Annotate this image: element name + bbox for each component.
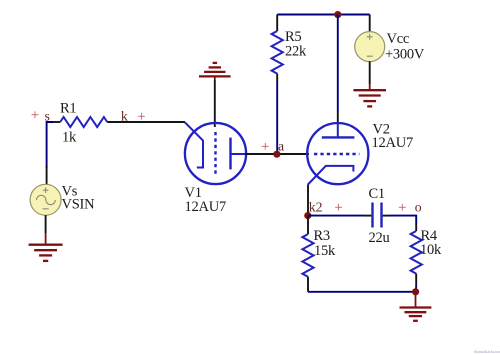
svg-text:o: o <box>415 200 422 215</box>
svg-text:dianzikaifa.com: dianzikaifa.com <box>474 349 500 354</box>
svg-text:12AU7: 12AU7 <box>185 199 226 215</box>
junction k2 <box>304 212 311 219</box>
svg-text:k: k <box>121 108 128 123</box>
pin Vs bottom <box>45 215 47 233</box>
triode V2 12AU7 <box>307 123 368 184</box>
svg-text:R1: R1 <box>60 101 76 117</box>
value 1k <box>62 130 77 146</box>
resistor R5 <box>272 15 283 82</box>
resistor R4 <box>411 223 422 292</box>
watermark <box>474 349 500 354</box>
node o <box>415 200 422 215</box>
voltage source Vs <box>30 184 61 215</box>
node a <box>278 139 284 154</box>
ground at Vcc <box>353 84 386 106</box>
triode V1 12AU7 <box>185 123 247 185</box>
label R3 <box>314 228 330 244</box>
wire plate V1 to node a to V2 grid <box>245 153 309 155</box>
svg-text:VSIN: VSIN <box>62 197 96 213</box>
junction node a <box>273 151 280 158</box>
value 12AU7 (V1) <box>185 199 226 215</box>
svg-text:C1: C1 <box>369 186 385 202</box>
wire node s corner <box>47 122 53 168</box>
svg-text:R3: R3 <box>314 228 330 244</box>
value 10k <box>420 242 442 258</box>
wire V2 plate stem <box>337 15 339 125</box>
node k2 <box>309 200 323 215</box>
polarity + at k2 <box>334 200 342 216</box>
value 15k <box>314 243 336 259</box>
ground bottom right <box>400 292 432 321</box>
capacitor C1 <box>373 203 382 228</box>
svg-text:Vcc: Vcc <box>387 31 410 47</box>
value 12AU7 (V2) <box>372 135 413 151</box>
ground above V1 (grid ground) <box>199 63 231 80</box>
wire R5 bottom to node a <box>276 81 278 154</box>
svg-text:12AU7: 12AU7 <box>372 135 413 151</box>
value 22k <box>285 44 307 60</box>
wire V2 cathode to k2 <box>307 185 309 216</box>
polarity + at s <box>31 108 39 124</box>
label R4 <box>421 228 438 244</box>
value 22u <box>369 230 390 246</box>
svg-text:+: + <box>31 108 39 124</box>
ground at Vs <box>29 233 63 261</box>
junction top rail <box>334 11 341 18</box>
svg-text:+: + <box>137 109 145 125</box>
svg-text:22u: 22u <box>369 230 390 246</box>
junction bottom <box>412 288 419 295</box>
svg-text:+: + <box>261 139 269 155</box>
polarity + at k <box>137 109 145 125</box>
svg-text:22k: 22k <box>285 44 307 60</box>
wire bottom rail <box>308 291 416 293</box>
label V2 <box>373 122 390 138</box>
wire C1 to node o <box>383 216 417 223</box>
voltage source Vcc <box>355 15 385 85</box>
label Vs <box>62 184 78 200</box>
resistor R3 <box>302 216 313 292</box>
label C1 <box>369 186 385 202</box>
label R1 <box>60 101 76 117</box>
svg-text:10k: 10k <box>420 242 442 258</box>
svg-text:+: + <box>334 200 342 216</box>
value +300V <box>385 47 425 63</box>
svg-text:k2: k2 <box>309 200 323 215</box>
polarity + at o <box>398 200 406 216</box>
pin V1 grid <box>214 80 216 127</box>
pin Vs top <box>46 166 48 184</box>
svg-text:+300V: +300V <box>385 47 425 63</box>
polarity + at a <box>261 139 269 155</box>
wire k2 to C1 <box>308 215 371 217</box>
svg-text:s: s <box>45 108 50 123</box>
svg-text:+: + <box>398 200 406 216</box>
label R5 <box>285 29 301 45</box>
value VSIN <box>62 197 96 213</box>
wire top rail <box>277 14 370 16</box>
node s <box>45 108 50 123</box>
node k <box>121 108 128 123</box>
wire k: R1 to V1 cathode <box>107 121 185 123</box>
svg-text:1k: 1k <box>62 130 77 146</box>
svg-text:15k: 15k <box>314 243 336 259</box>
resistor R1 <box>53 117 107 127</box>
label V1 <box>185 185 202 201</box>
label Vcc <box>387 31 410 47</box>
